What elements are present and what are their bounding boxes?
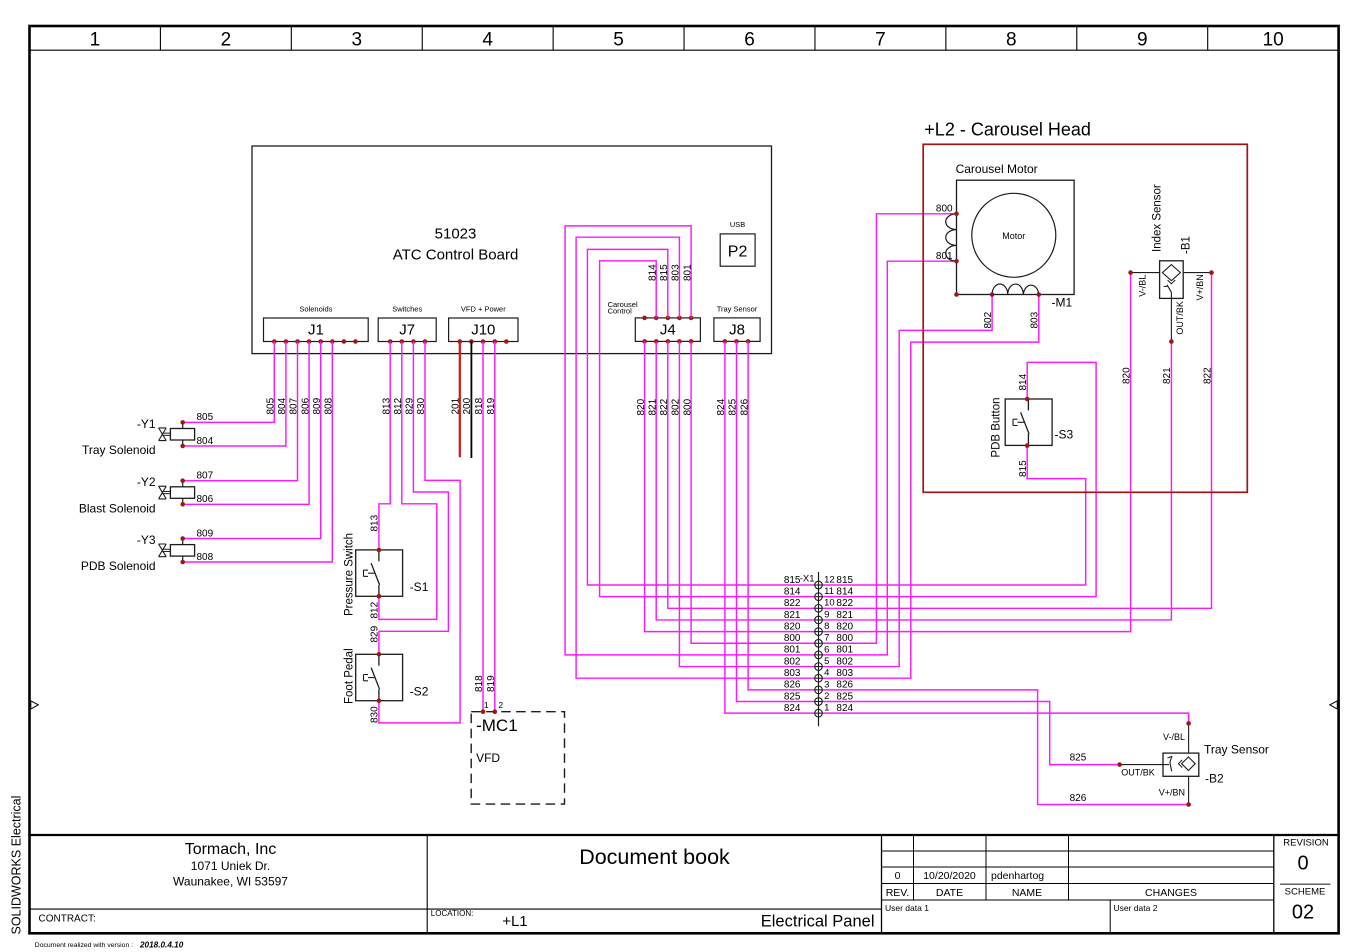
svg-text:814: 814: [784, 586, 801, 597]
title block: [30, 835, 1339, 933]
svg-text:824: 824: [716, 398, 727, 415]
switch wire labels 813 812 829 830: [370, 514, 381, 723]
wire 806 J1.4 to Y2: [183, 342, 309, 505]
wire 802 X1.5 to motor M1: [819, 295, 993, 667]
motor wire labels 800 801 802 803: [936, 204, 1041, 329]
connector J7 Switches: [378, 305, 436, 342]
svg-text:-S2: -S2: [410, 685, 429, 699]
svg-text:819: 819: [486, 397, 497, 414]
location box +L2 Carousel Head: [923, 144, 1247, 492]
svg-text:-X1: -X1: [800, 574, 815, 585]
svg-text:803: 803: [836, 668, 853, 679]
svg-text:1: 1: [90, 30, 101, 51]
revision box: [1280, 838, 1330, 924]
J1 pins: [272, 339, 358, 344]
connector J1 Solenoids: [264, 305, 369, 342]
svg-text:-Y2: -Y2: [137, 475, 156, 489]
svg-text:824: 824: [836, 703, 853, 714]
J4 bottom wire number labels: [636, 398, 694, 415]
wire 825 J8 to X1 terminal 2: [737, 341, 819, 701]
svg-text:4: 4: [824, 668, 829, 679]
svg-text:821: 821: [1162, 367, 1173, 384]
svg-text:801: 801: [682, 264, 693, 281]
svg-text:Electrical Panel: Electrical Panel: [761, 912, 875, 930]
column numbers 1-10: [90, 30, 1284, 51]
wire 807 J1.3 to Y2: [183, 342, 298, 481]
sensor B1 Index Sensor: [1131, 261, 1212, 342]
J4 pins top and bottom: [642, 316, 693, 344]
wire 822 X1.10 to B1 V+/BN: [819, 273, 1212, 609]
X1 left wire numbers: [784, 575, 801, 714]
svg-text:818: 818: [474, 675, 485, 692]
X1 terminal numbers: [824, 574, 835, 713]
svg-text:800: 800: [936, 204, 953, 215]
svg-text:822: 822: [836, 598, 853, 609]
svg-text:12: 12: [824, 574, 835, 585]
svg-text:801: 801: [784, 645, 801, 656]
svg-text:808: 808: [324, 397, 335, 414]
svg-text:830: 830: [416, 397, 427, 414]
svg-text:825: 825: [836, 691, 853, 702]
wire 803 J4 top to X1 terminal 4: [576, 237, 818, 678]
svg-text:826: 826: [1070, 793, 1087, 804]
S3 wire labels 814 815: [1018, 373, 1029, 477]
svg-text:829: 829: [370, 625, 381, 642]
svg-text:02: 02: [1292, 902, 1314, 924]
motor M1 Carousel Motor: [946, 180, 1074, 294]
svg-text:820: 820: [636, 398, 647, 415]
wire 803 X1.4 to motor M1: [819, 295, 1039, 679]
svg-text:VFD + Power: VFD + Power: [461, 305, 506, 314]
svg-text:Waunakee, WI 53597: Waunakee, WI 53597: [173, 875, 288, 889]
connector P2 USB: [720, 220, 755, 266]
svg-text:9: 9: [824, 609, 829, 620]
switch S1 Pressure Switch: [356, 550, 403, 596]
svg-text:PDB Button: PDB Button: [991, 398, 1003, 458]
B2 pin name labels: [1121, 732, 1185, 798]
svg-text:825: 825: [1070, 753, 1087, 764]
svg-text:815: 815: [1018, 460, 1029, 477]
wire 830 J7.4 to S2 bottom: [379, 342, 460, 723]
S3 pins: [1025, 397, 1030, 448]
wire 201 red power: [459, 342, 461, 458]
svg-text:0: 0: [1297, 853, 1308, 875]
svg-text:Tray Sensor: Tray Sensor: [1204, 743, 1269, 757]
column header band line: [30, 49, 1339, 51]
svg-text:REV.: REV.: [886, 887, 910, 899]
svg-text:-S1: -S1: [410, 580, 429, 594]
svg-text:821: 821: [836, 610, 853, 621]
svg-text:1071 Uniek Dr.: 1071 Uniek Dr.: [191, 859, 270, 873]
wire 822 J4 bottom to X1 terminal 10: [668, 341, 819, 608]
solenoid -Y1 Tray Solenoid: [159, 422, 195, 446]
wire 813 J7.1 to S1 top: [379, 342, 390, 551]
J1 wire number labels: [266, 397, 335, 414]
svg-text:SOLIDWORKS Electrical: SOLIDWORKS Electrical: [10, 796, 24, 935]
wire 808 J1.6 to Y3: [183, 342, 333, 563]
svg-text:V+/BN: V+/BN: [1159, 788, 1185, 798]
818 819 labels near MC1: [474, 675, 497, 692]
svg-text:1: 1: [484, 700, 489, 710]
svg-text:815: 815: [659, 264, 670, 281]
switch S2 Foot Pedal: [356, 654, 403, 700]
svg-text:814: 814: [1018, 373, 1029, 390]
svg-text:Foot Pedal: Foot Pedal: [344, 648, 356, 704]
company name Tormach Inc: [173, 841, 288, 889]
svg-text:829: 829: [405, 397, 416, 414]
B1 pins: [1128, 270, 1214, 344]
svg-text:812: 812: [393, 397, 404, 414]
wire 819 J10 to MC1 pin2: [494, 342, 496, 712]
svg-text:Tray Sensor: Tray Sensor: [717, 305, 758, 314]
svg-text:800: 800: [784, 633, 801, 644]
svg-text:-M1: -M1: [1052, 296, 1073, 310]
wire 815 X1.12 to S3 bottom: [819, 446, 1086, 585]
svg-text:800: 800: [682, 398, 693, 415]
wire 826 J8 to X1 terminal 3: [748, 341, 818, 689]
wire 801 J4 top to X1 terminal 6: [565, 226, 818, 655]
wire 825 X1.2 to B2 OUT/BK: [819, 702, 1120, 765]
X1 terminal circles: [815, 581, 823, 717]
svg-text:J8: J8: [729, 322, 745, 339]
svg-text:Document book: Document book: [579, 845, 730, 869]
svg-text:Control: Control: [608, 307, 633, 316]
B2 pins: [1117, 721, 1191, 807]
wire 821 J4 bottom to X1 terminal 9: [656, 341, 818, 620]
svg-text:USB: USB: [730, 220, 745, 229]
svg-text:806: 806: [197, 494, 214, 505]
svg-text:V+/BN: V+/BN: [1195, 274, 1205, 300]
J10 wire number labels: [451, 397, 497, 414]
svg-text:201: 201: [451, 397, 462, 414]
svg-text:7: 7: [875, 30, 886, 51]
svg-text:J10: J10: [471, 322, 495, 339]
svg-text:818: 818: [474, 397, 485, 414]
svg-text:812: 812: [370, 601, 381, 618]
revision table texts: [885, 870, 1197, 913]
svg-text:809: 809: [312, 397, 323, 414]
svg-text:Index Sensor: Index Sensor: [1152, 184, 1164, 252]
svg-text:825: 825: [728, 398, 739, 415]
svg-text:NAME: NAME: [1012, 887, 1042, 899]
svg-text:-B1: -B1: [1181, 236, 1193, 254]
svg-text:11: 11: [824, 586, 834, 597]
svg-text:3: 3: [824, 679, 829, 690]
svg-text:807: 807: [197, 471, 214, 482]
B2 wire labels 825 826: [1070, 753, 1087, 805]
wire 809 J1.5 to Y3: [183, 342, 321, 539]
svg-text:805: 805: [197, 412, 214, 423]
svg-text:Motor: Motor: [1002, 231, 1025, 241]
svg-text:820: 820: [784, 621, 801, 632]
J7 wire number labels: [381, 397, 427, 414]
B1 pin name labels: [1137, 274, 1204, 334]
svg-text:-MC1: -MC1: [476, 716, 518, 735]
svg-text:PDB Solenoid: PDB Solenoid: [81, 559, 156, 573]
svg-text:pdenhartog: pdenhartog: [991, 870, 1044, 882]
J4 top wire number labels: [647, 264, 693, 281]
svg-text:802: 802: [983, 311, 994, 328]
svg-text:J7: J7: [399, 322, 415, 339]
svg-text:-Y1: -Y1: [137, 417, 156, 431]
svg-text:User data 1: User data 1: [885, 903, 929, 913]
svg-text:7: 7: [824, 633, 829, 644]
svg-text:803: 803: [671, 264, 682, 281]
svg-text:8: 8: [824, 621, 829, 632]
svg-text:4: 4: [482, 30, 493, 51]
svg-text:REVISION: REVISION: [1283, 838, 1329, 849]
J10 pins: [458, 339, 509, 344]
svg-text:Blast Solenoid: Blast Solenoid: [79, 501, 156, 515]
svg-text:V-/BL: V-/BL: [1163, 732, 1185, 742]
svg-text:2: 2: [498, 700, 503, 710]
wire 820 X1.8 to B1 V-/BL: [819, 273, 1131, 632]
svg-text:814: 814: [647, 264, 658, 281]
svg-text:10: 10: [1263, 30, 1284, 51]
svg-text:200: 200: [462, 397, 473, 414]
label LOCATION +L1: [431, 909, 528, 930]
svg-text:804: 804: [277, 397, 288, 414]
svg-text:6: 6: [744, 30, 755, 51]
svg-text:2018.0.4.10: 2018.0.4.10: [139, 940, 184, 949]
sensor B2 Tray Sensor: [1120, 723, 1199, 804]
wire 812 J7.2 to S1 bottom: [379, 342, 437, 620]
svg-text:1: 1: [824, 703, 829, 714]
ATC control board outline 51023: [252, 146, 772, 354]
svg-text:830: 830: [370, 706, 381, 723]
svg-text:826: 826: [836, 680, 853, 691]
svg-text:802: 802: [836, 656, 853, 667]
left fold mark: [31, 701, 39, 709]
version footnote: [35, 940, 184, 949]
svg-text:3: 3: [351, 30, 362, 51]
svg-text:0: 0: [895, 870, 901, 882]
svg-text:-Y3: -Y3: [137, 533, 156, 547]
svg-text:822: 822: [784, 598, 801, 609]
svg-text:10: 10: [824, 598, 835, 609]
svg-text:Switches: Switches: [392, 305, 422, 314]
wire 818 J10 to MC1 pin1: [482, 342, 484, 712]
switch S3 PDB Button: [1005, 399, 1052, 445]
S1 pins: [377, 548, 382, 599]
wire 814 J4 top to X1 terminal 11: [600, 261, 819, 597]
svg-text:813: 813: [381, 397, 392, 414]
wire 820 J4 bottom to X1 terminal 8: [645, 341, 819, 631]
svg-text:DATE: DATE: [936, 887, 963, 899]
column separators: [160, 26, 1207, 50]
svg-text:801: 801: [836, 645, 853, 656]
X1 right wire numbers: [836, 575, 853, 714]
-Y2 pins: [180, 478, 185, 506]
svg-text:Solenoids: Solenoids: [299, 305, 332, 314]
svg-text:821: 821: [784, 610, 801, 621]
svg-text:5: 5: [613, 30, 624, 51]
svg-text:V-/BL: V-/BL: [1137, 275, 1147, 297]
M1 pins: [954, 212, 1041, 297]
svg-text:Carousel Motor: Carousel Motor: [956, 162, 1038, 176]
MC1 pins: [481, 709, 497, 714]
svg-text:CHANGES: CHANGES: [1145, 887, 1197, 899]
svg-text:825: 825: [784, 691, 801, 702]
svg-text:820: 820: [1121, 367, 1132, 384]
svg-text:822: 822: [659, 398, 670, 415]
svg-text:Pressure Switch: Pressure Switch: [344, 533, 356, 616]
svg-text:Tormach, Inc: Tormach, Inc: [185, 841, 277, 858]
S2 pins: [377, 652, 382, 703]
svg-text:826: 826: [784, 680, 801, 691]
svg-text:804: 804: [197, 436, 214, 447]
svg-text:803: 803: [784, 668, 801, 679]
svg-text:9: 9: [1137, 30, 1148, 51]
svg-text:824: 824: [784, 703, 801, 714]
svg-text:J4: J4: [660, 322, 676, 339]
svg-text:821: 821: [647, 398, 658, 415]
svg-text:808: 808: [197, 552, 214, 563]
wire 824 J8 to X1 terminal 1: [725, 341, 819, 713]
svg-text:2: 2: [824, 691, 829, 702]
-Y3 pins: [180, 536, 185, 564]
svg-text:-B2: -B2: [1205, 772, 1224, 786]
connector J8 Tray Sensor: [714, 305, 760, 342]
svg-text:814: 814: [836, 586, 853, 597]
svg-text:815: 815: [836, 575, 853, 586]
svg-text:806: 806: [300, 397, 311, 414]
wire 801 X1.6 to motor M1: [819, 261, 957, 655]
svg-text:10/20/2020: 10/20/2020: [923, 870, 976, 882]
svg-text:805: 805: [266, 397, 277, 414]
wire 814 X1.11 to S3 top: [819, 362, 1097, 596]
svg-text:-S3: -S3: [1055, 428, 1074, 442]
svg-text:807: 807: [289, 397, 300, 414]
svg-text:826: 826: [739, 398, 750, 415]
J7 pins: [388, 339, 427, 344]
svg-text:LOCATION:: LOCATION:: [431, 909, 474, 918]
svg-text:VFD: VFD: [476, 751, 500, 765]
svg-text:P2: P2: [728, 244, 748, 261]
right fold mark: [1330, 701, 1338, 709]
svg-text:OUT/BK: OUT/BK: [1175, 301, 1185, 335]
svg-text:815: 815: [784, 575, 801, 586]
svg-text:822: 822: [1202, 367, 1213, 384]
svg-text:Tray Solenoid: Tray Solenoid: [82, 443, 156, 457]
MC1 pin labels 1 2: [484, 700, 504, 710]
connector J10 VFD + Power: [449, 305, 518, 342]
wire 200 black power: [470, 342, 472, 459]
solenoid wire number labels: [197, 412, 214, 563]
svg-text:SCHEME: SCHEME: [1285, 887, 1326, 898]
VFD drive MC1 dashed enclosure: [471, 712, 564, 804]
svg-text:801: 801: [936, 251, 953, 262]
J8 wire number labels: [716, 398, 750, 415]
svg-text:OUT/BK: OUT/BK: [1121, 768, 1155, 778]
svg-text:8: 8: [1006, 30, 1017, 51]
svg-text:802: 802: [784, 656, 801, 667]
J8 pins: [723, 339, 751, 344]
svg-text:User data 2: User data 2: [1114, 903, 1158, 913]
connector J4 Carousel Control: [608, 300, 701, 342]
wire 824 X1.1 to B2 V-/BL: [819, 713, 1189, 723]
svg-text:819: 819: [486, 675, 497, 692]
svg-text:813: 813: [370, 514, 381, 531]
svg-text:51023: 51023: [435, 226, 477, 243]
solenoid -Y3 PDB Solenoid: [159, 539, 195, 563]
svg-text:809: 809: [197, 528, 214, 539]
svg-text:5: 5: [824, 656, 829, 667]
-Y1 pins: [180, 420, 185, 448]
svg-text:Document realized with version: Document realized with version :: [35, 942, 133, 949]
svg-text:+L1: +L1: [502, 913, 527, 930]
svg-text:2: 2: [221, 30, 232, 51]
svg-text:803: 803: [1030, 311, 1041, 328]
wire 815 J4 top to X1 terminal 12: [587, 249, 818, 585]
wire 805 J1.1 to Y1: [183, 342, 275, 423]
wire 804 J1.2 to Y1: [183, 342, 286, 447]
svg-text:+L2 - Carousel Head: +L2 - Carousel Head: [924, 119, 1091, 139]
svg-text:J1: J1: [308, 322, 324, 339]
wire 802 J4 bottom to X1 terminal 5: [679, 341, 818, 666]
wire 800 J4 bottom to X1 terminal 7: [691, 341, 818, 643]
svg-text:CONTRACT:: CONTRACT:: [39, 914, 96, 925]
svg-text:6: 6: [824, 644, 829, 655]
wire 829 J7.3 to S2 top: [379, 342, 449, 655]
terminal strip X1: [818, 572, 820, 726]
carousel head wire labels 820 821 822: [1121, 367, 1213, 384]
svg-text:800: 800: [836, 633, 853, 644]
svg-text:802: 802: [671, 398, 682, 415]
wire 826 X1.3 to B2 V+/BN: [819, 690, 1189, 805]
svg-text:ATC Control Board: ATC Control Board: [393, 247, 519, 264]
wire 800 X1.7 to motor M1: [819, 214, 957, 643]
svg-text:820: 820: [836, 621, 853, 632]
solenoid -Y2 Blast Solenoid: [159, 481, 195, 505]
wire 821 X1.9 to B1 OUT/BK: [819, 342, 1172, 620]
